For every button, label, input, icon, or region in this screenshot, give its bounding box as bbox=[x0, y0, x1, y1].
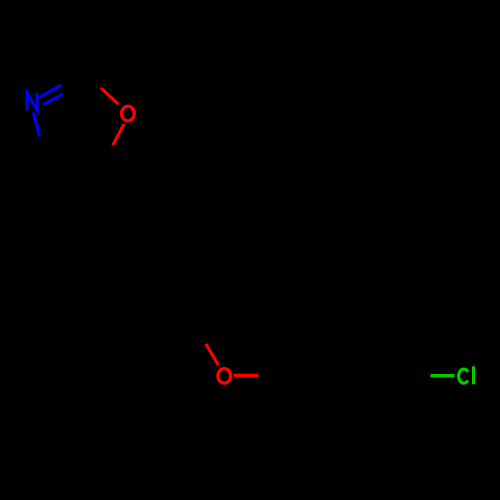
atom label O (ether oxygen) bbox=[218, 369, 231, 384]
bond C4 phenyl-Cl (green half) bbox=[431, 374, 455, 377]
bond O-C1 phenyl (red half) bbox=[233, 374, 258, 377]
bond O1-C5 (red half) bbox=[113, 124, 124, 145]
bond C2-O1 (red half) bbox=[101, 88, 119, 105]
bond N3=C2 outer line (blue half) bbox=[39, 85, 61, 97]
atom label O (oxazole O1) bbox=[122, 106, 135, 121]
bond N3=C2 inner line (blue half) bbox=[43, 94, 63, 105]
atom label N (oxazole N3) bbox=[27, 93, 37, 111]
bond N3-C4 (blue half) bbox=[33, 113, 39, 137]
atom label Cl : letter l bbox=[472, 366, 475, 384]
bond CH2-O ether (red half) bbox=[206, 344, 219, 365]
atom label Cl : letter C bbox=[459, 369, 468, 383]
